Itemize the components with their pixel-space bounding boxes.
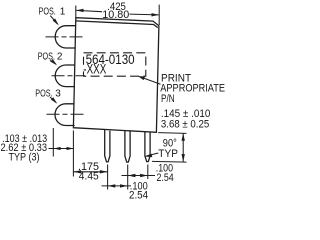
extension line right (.425 dim) <box>158 5 160 25</box>
extension pin tip right (.145 dim) <box>152 160 187 163</box>
arrowhead .175 left <box>74 170 82 173</box>
centerline dome 2 <box>52 75 86 77</box>
svg-text:2: 2 <box>57 52 63 63</box>
arrowhead .145 bottom <box>182 154 185 162</box>
arrowhead .100 upper left <box>128 174 135 177</box>
svg-text:POS.: POS. <box>35 88 52 99</box>
arrowhead 90 TYP <box>145 154 153 158</box>
body top inner edge <box>76 21 158 28</box>
extension pin3 center <box>147 165 149 180</box>
arrowhead .103 right <box>67 147 74 150</box>
dim line .100 lower <box>102 185 132 187</box>
LED dome POS.3 <box>55 104 75 126</box>
arrowhead .103 left <box>54 147 61 150</box>
extension pin2 center <box>127 165 129 190</box>
arrowhead .100 lower right <box>120 184 128 187</box>
gap for -XXX dash <box>83 65 89 72</box>
pin 3 <box>145 132 150 162</box>
arrowhead POS.3 <box>51 97 57 104</box>
leader print p/n <box>140 77 160 84</box>
svg-text:1: 1 <box>60 7 66 18</box>
arrowhead print p/n <box>138 76 145 80</box>
svg-text:2.54: 2.54 <box>129 190 148 200</box>
svg-text:3.68 ± 0.25: 3.68 ± 0.25 <box>161 118 209 130</box>
arrowhead POS.2 <box>51 59 58 65</box>
extension line left (.425 dim) <box>75 6 77 18</box>
centerline dome 3 <box>47 113 85 115</box>
arrowhead .425 left <box>76 9 84 12</box>
svg-text:2.54: 2.54 <box>157 172 174 184</box>
extension line dome tip (.103 dim) <box>52 128 54 157</box>
LED dome POS.2 <box>55 65 75 87</box>
arrowhead .100 lower left <box>108 184 116 187</box>
svg-text:TYP: TYP <box>158 148 178 160</box>
body outline <box>73 18 158 133</box>
svg-text:TYP (3): TYP (3) <box>9 152 40 164</box>
dashed P/N box <box>84 53 146 76</box>
arrowhead .175 right <box>100 170 108 173</box>
svg-text:POS.: POS. <box>39 7 56 18</box>
arrowhead .145 top <box>182 133 185 141</box>
extension pin1 center <box>107 165 109 190</box>
svg-text:P/N: P/N <box>161 93 175 105</box>
arrowhead .100 upper right <box>140 174 148 177</box>
dim line .103 <box>49 148 74 150</box>
svg-text:-XXX: -XXX <box>83 60 106 76</box>
centerline dome 1 <box>46 36 85 38</box>
arrowhead POS.1 <box>53 19 59 26</box>
dim line .425 right segment <box>130 13 159 16</box>
extension body bottom right (.145 dim) <box>158 132 186 135</box>
pin 2 <box>125 131 130 163</box>
svg-text:4.45: 4.45 <box>79 171 99 183</box>
leader POS.1 <box>50 16 57 24</box>
dim line .100 upper <box>122 175 156 177</box>
pin 1 <box>105 129 110 162</box>
dim line .145 <box>182 133 184 161</box>
leader POS.2 <box>50 61 56 65</box>
leader POS.3 <box>50 97 56 103</box>
dim line .175 <box>73 171 107 173</box>
arrowhead .425 right <box>152 13 160 16</box>
svg-text:10.80: 10.80 <box>102 9 129 21</box>
svg-text:POS.: POS. <box>38 52 55 63</box>
dim line .425 left segment <box>76 10 102 11</box>
extension body bottom left (.175 dim) <box>72 131 74 177</box>
LED dome POS.1 <box>55 26 75 48</box>
svg-text:3: 3 <box>55 88 61 99</box>
leader 90 TYP <box>146 153 158 156</box>
